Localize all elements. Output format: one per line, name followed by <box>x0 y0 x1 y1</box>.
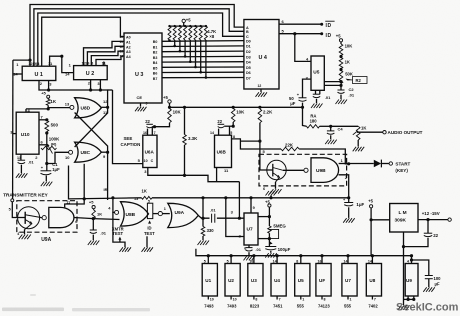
svg-text:A4: A4 <box>126 55 131 59</box>
svg-text:B5: B5 <box>153 66 158 70</box>
svg-text:+5: +5 <box>336 34 341 39</box>
svg-text:1: 1 <box>350 298 352 302</box>
svg-text:U 2: U 2 <box>86 71 94 77</box>
svg-text:22: 22 <box>433 233 438 238</box>
svg-text:U3: U3 <box>251 278 257 283</box>
svg-text:U7: U7 <box>247 226 253 232</box>
svg-text:12: 12 <box>258 84 262 88</box>
svg-text:U 3: U 3 <box>135 72 143 78</box>
svg-text:7402: 7402 <box>368 304 378 309</box>
svg-text:9: 9 <box>253 206 255 210</box>
svg-text:1K: 1K <box>142 189 147 194</box>
svg-text:10K: 10K <box>173 109 182 114</box>
svg-text:12: 12 <box>103 99 108 104</box>
svg-text:16: 16 <box>318 260 322 264</box>
svg-text:14: 14 <box>65 71 70 76</box>
svg-text:309K: 309K <box>395 218 407 224</box>
svg-text:10: 10 <box>233 298 237 302</box>
svg-text:TEST: TEST <box>112 231 123 236</box>
svg-text:A3: A3 <box>126 50 131 54</box>
svg-text:14: 14 <box>120 55 124 59</box>
svg-text:14: 14 <box>344 260 348 264</box>
svg-text:CE: CE <box>137 95 143 100</box>
svg-text:8: 8 <box>324 298 326 302</box>
svg-text:13: 13 <box>17 156 21 160</box>
svg-text:.01: .01 <box>100 230 106 235</box>
svg-text:U6A: U6A <box>145 150 155 155</box>
svg-text:B7: B7 <box>153 77 158 81</box>
svg-text:3.3K: 3.3K <box>188 136 198 141</box>
svg-text:B0: B0 <box>153 40 158 44</box>
svg-text:+5: +5 <box>163 95 168 100</box>
svg-text:1K: 1K <box>50 99 56 104</box>
svg-text:1μF: 1μF <box>52 167 60 172</box>
svg-text:180: 180 <box>310 119 318 124</box>
svg-text:.01: .01 <box>210 207 216 212</box>
svg-text:U8B: U8B <box>126 212 136 218</box>
svg-text:5: 5 <box>227 260 229 264</box>
svg-text:14: 14 <box>273 260 277 264</box>
svg-text:START: START <box>395 161 410 166</box>
svg-text:CAPTION: CAPTION <box>121 142 141 147</box>
svg-text:5MEG: 5MEG <box>273 223 286 228</box>
svg-text:6: 6 <box>263 187 265 191</box>
svg-text:U5: U5 <box>298 278 304 283</box>
svg-text:SeekIC.com: SeekIC.com <box>396 302 459 314</box>
svg-text:C: C <box>151 159 154 163</box>
svg-text:U6B: U6B <box>217 150 227 155</box>
svg-text:14: 14 <box>368 260 372 264</box>
svg-text:B4: B4 <box>153 61 158 65</box>
svg-text:U2: U2 <box>228 278 234 283</box>
svg-text:14: 14 <box>210 131 214 135</box>
svg-text:10K: 10K <box>345 44 353 49</box>
svg-text:13: 13 <box>65 101 70 106</box>
svg-text:U8D: U8D <box>81 106 91 112</box>
svg-text:4: 4 <box>17 232 19 236</box>
svg-text:1: 1 <box>302 298 304 302</box>
svg-text:R2: R2 <box>356 78 362 83</box>
svg-text:1μF: 1μF <box>356 202 364 207</box>
svg-text:(KEY): (KEY) <box>395 168 408 173</box>
svg-text:L M: L M <box>399 210 407 216</box>
svg-text:4: 4 <box>407 260 409 264</box>
svg-text:100μF: 100μF <box>278 247 291 252</box>
svg-text:12: 12 <box>120 45 124 49</box>
svg-text:+5: +5 <box>186 18 191 23</box>
svg-text:D6: D6 <box>246 71 251 75</box>
svg-text:2: 2 <box>345 176 347 180</box>
svg-text:14: 14 <box>13 72 18 77</box>
svg-text:IR: IR <box>104 187 108 192</box>
svg-text:6: 6 <box>75 220 77 224</box>
svg-text:+5: +5 <box>368 198 373 203</box>
svg-text:9: 9 <box>146 102 148 106</box>
svg-text:74123: 74123 <box>318 304 330 309</box>
svg-text:10: 10 <box>210 298 214 302</box>
svg-text:D3: D3 <box>246 55 251 59</box>
svg-text:B: B <box>246 30 249 34</box>
svg-text:A2: A2 <box>126 45 131 49</box>
svg-text:7: 7 <box>154 131 156 135</box>
svg-text:U9: U9 <box>406 278 412 283</box>
svg-text:11: 11 <box>120 40 124 44</box>
svg-text:8: 8 <box>296 260 298 264</box>
svg-text:U 1: U 1 <box>35 72 43 78</box>
svg-text:7493: 7493 <box>204 304 214 309</box>
svg-text:7: 7 <box>374 298 376 302</box>
svg-text:D0: D0 <box>246 39 251 43</box>
svg-text:ID: ID <box>326 23 332 29</box>
svg-text:C4: C4 <box>338 126 344 131</box>
svg-text:1: 1 <box>341 159 343 163</box>
svg-text:.01: .01 <box>349 92 355 97</box>
svg-text:16: 16 <box>143 131 147 135</box>
svg-text:B3: B3 <box>153 56 158 60</box>
svg-text:TEST: TEST <box>144 231 155 236</box>
svg-text:D7: D7 <box>246 76 251 80</box>
svg-text:ID: ID <box>326 33 332 39</box>
svg-text:7451: 7451 <box>273 304 283 309</box>
svg-text:16: 16 <box>249 260 253 264</box>
svg-text:U 4: U 4 <box>259 55 267 61</box>
svg-text:13: 13 <box>134 197 138 201</box>
svg-text:μF: μF <box>435 282 441 287</box>
svg-text:A0: A0 <box>126 36 131 40</box>
svg-text:5: 5 <box>204 260 206 264</box>
svg-text:.01: .01 <box>28 160 34 165</box>
svg-text:B2: B2 <box>153 51 158 55</box>
svg-text:U1: U1 <box>205 278 211 283</box>
svg-text:U9B: U9B <box>316 168 326 174</box>
svg-text:TRANSMITTER KEY: TRANSMITTER KEY <box>3 193 48 198</box>
svg-text:22: 22 <box>145 119 150 124</box>
svg-text:7493: 7493 <box>227 304 237 309</box>
svg-text:1K: 1K <box>345 60 350 65</box>
svg-text:B1: B1 <box>153 45 158 49</box>
svg-text:330: 330 <box>207 228 215 233</box>
svg-text:UF: UF <box>319 278 325 283</box>
svg-text:10: 10 <box>144 159 148 163</box>
svg-text:555: 555 <box>344 304 352 309</box>
svg-text:U8C: U8C <box>81 150 91 156</box>
svg-text:μF: μF <box>290 101 296 106</box>
svg-text:8: 8 <box>255 298 257 302</box>
svg-text:5: 5 <box>148 199 150 203</box>
svg-text:1K: 1K <box>97 211 102 216</box>
svg-text:5: 5 <box>9 208 11 212</box>
svg-text:D1: D1 <box>246 45 251 49</box>
svg-text:U4: U4 <box>274 278 280 283</box>
svg-text:×8: ×8 <box>209 34 214 39</box>
svg-text:10: 10 <box>120 35 124 39</box>
svg-text:U9A: U9A <box>41 237 51 243</box>
svg-text:50K: 50K <box>345 72 353 77</box>
svg-text:U9A: U9A <box>175 210 185 216</box>
svg-text:A1: A1 <box>126 40 131 44</box>
svg-text:10K: 10K <box>236 109 245 114</box>
svg-text:U10: U10 <box>21 132 30 138</box>
svg-text:100: 100 <box>434 276 442 281</box>
svg-text:22K: 22K <box>285 143 294 148</box>
svg-text:12|9: 12|9 <box>82 60 91 65</box>
svg-text:B6: B6 <box>153 72 158 76</box>
svg-text:U8: U8 <box>369 278 375 283</box>
svg-text:2.2K: 2.2K <box>263 109 273 114</box>
svg-text:U5: U5 <box>313 70 319 76</box>
svg-text:13: 13 <box>120 50 124 54</box>
svg-text:8: 8 <box>233 135 235 139</box>
svg-text:1: 1 <box>164 207 166 211</box>
svg-text:7: 7 <box>279 298 281 302</box>
svg-text:U7: U7 <box>345 278 351 283</box>
svg-text:D2: D2 <box>246 50 251 54</box>
svg-text:22: 22 <box>217 119 222 124</box>
svg-text:8223: 8223 <box>250 304 260 309</box>
svg-text:+5: +5 <box>89 199 94 204</box>
svg-text:SEE: SEE <box>124 136 133 141</box>
svg-text:.01: .01 <box>325 95 331 100</box>
svg-text:500: 500 <box>51 123 59 128</box>
svg-text:555: 555 <box>297 304 305 309</box>
svg-text:+12 -15V: +12 -15V <box>422 211 440 216</box>
svg-text:AUDIO OUTPUT: AUDIO OUTPUT <box>388 130 423 135</box>
svg-text:.01: .01 <box>255 247 261 252</box>
svg-text:D5: D5 <box>246 66 251 70</box>
svg-text:1K: 1K <box>361 126 366 131</box>
svg-text:11: 11 <box>66 200 70 204</box>
svg-text:12|9|8: 12|9|8 <box>28 61 40 66</box>
svg-text:10: 10 <box>65 155 70 160</box>
svg-text:+5: +5 <box>41 91 46 96</box>
